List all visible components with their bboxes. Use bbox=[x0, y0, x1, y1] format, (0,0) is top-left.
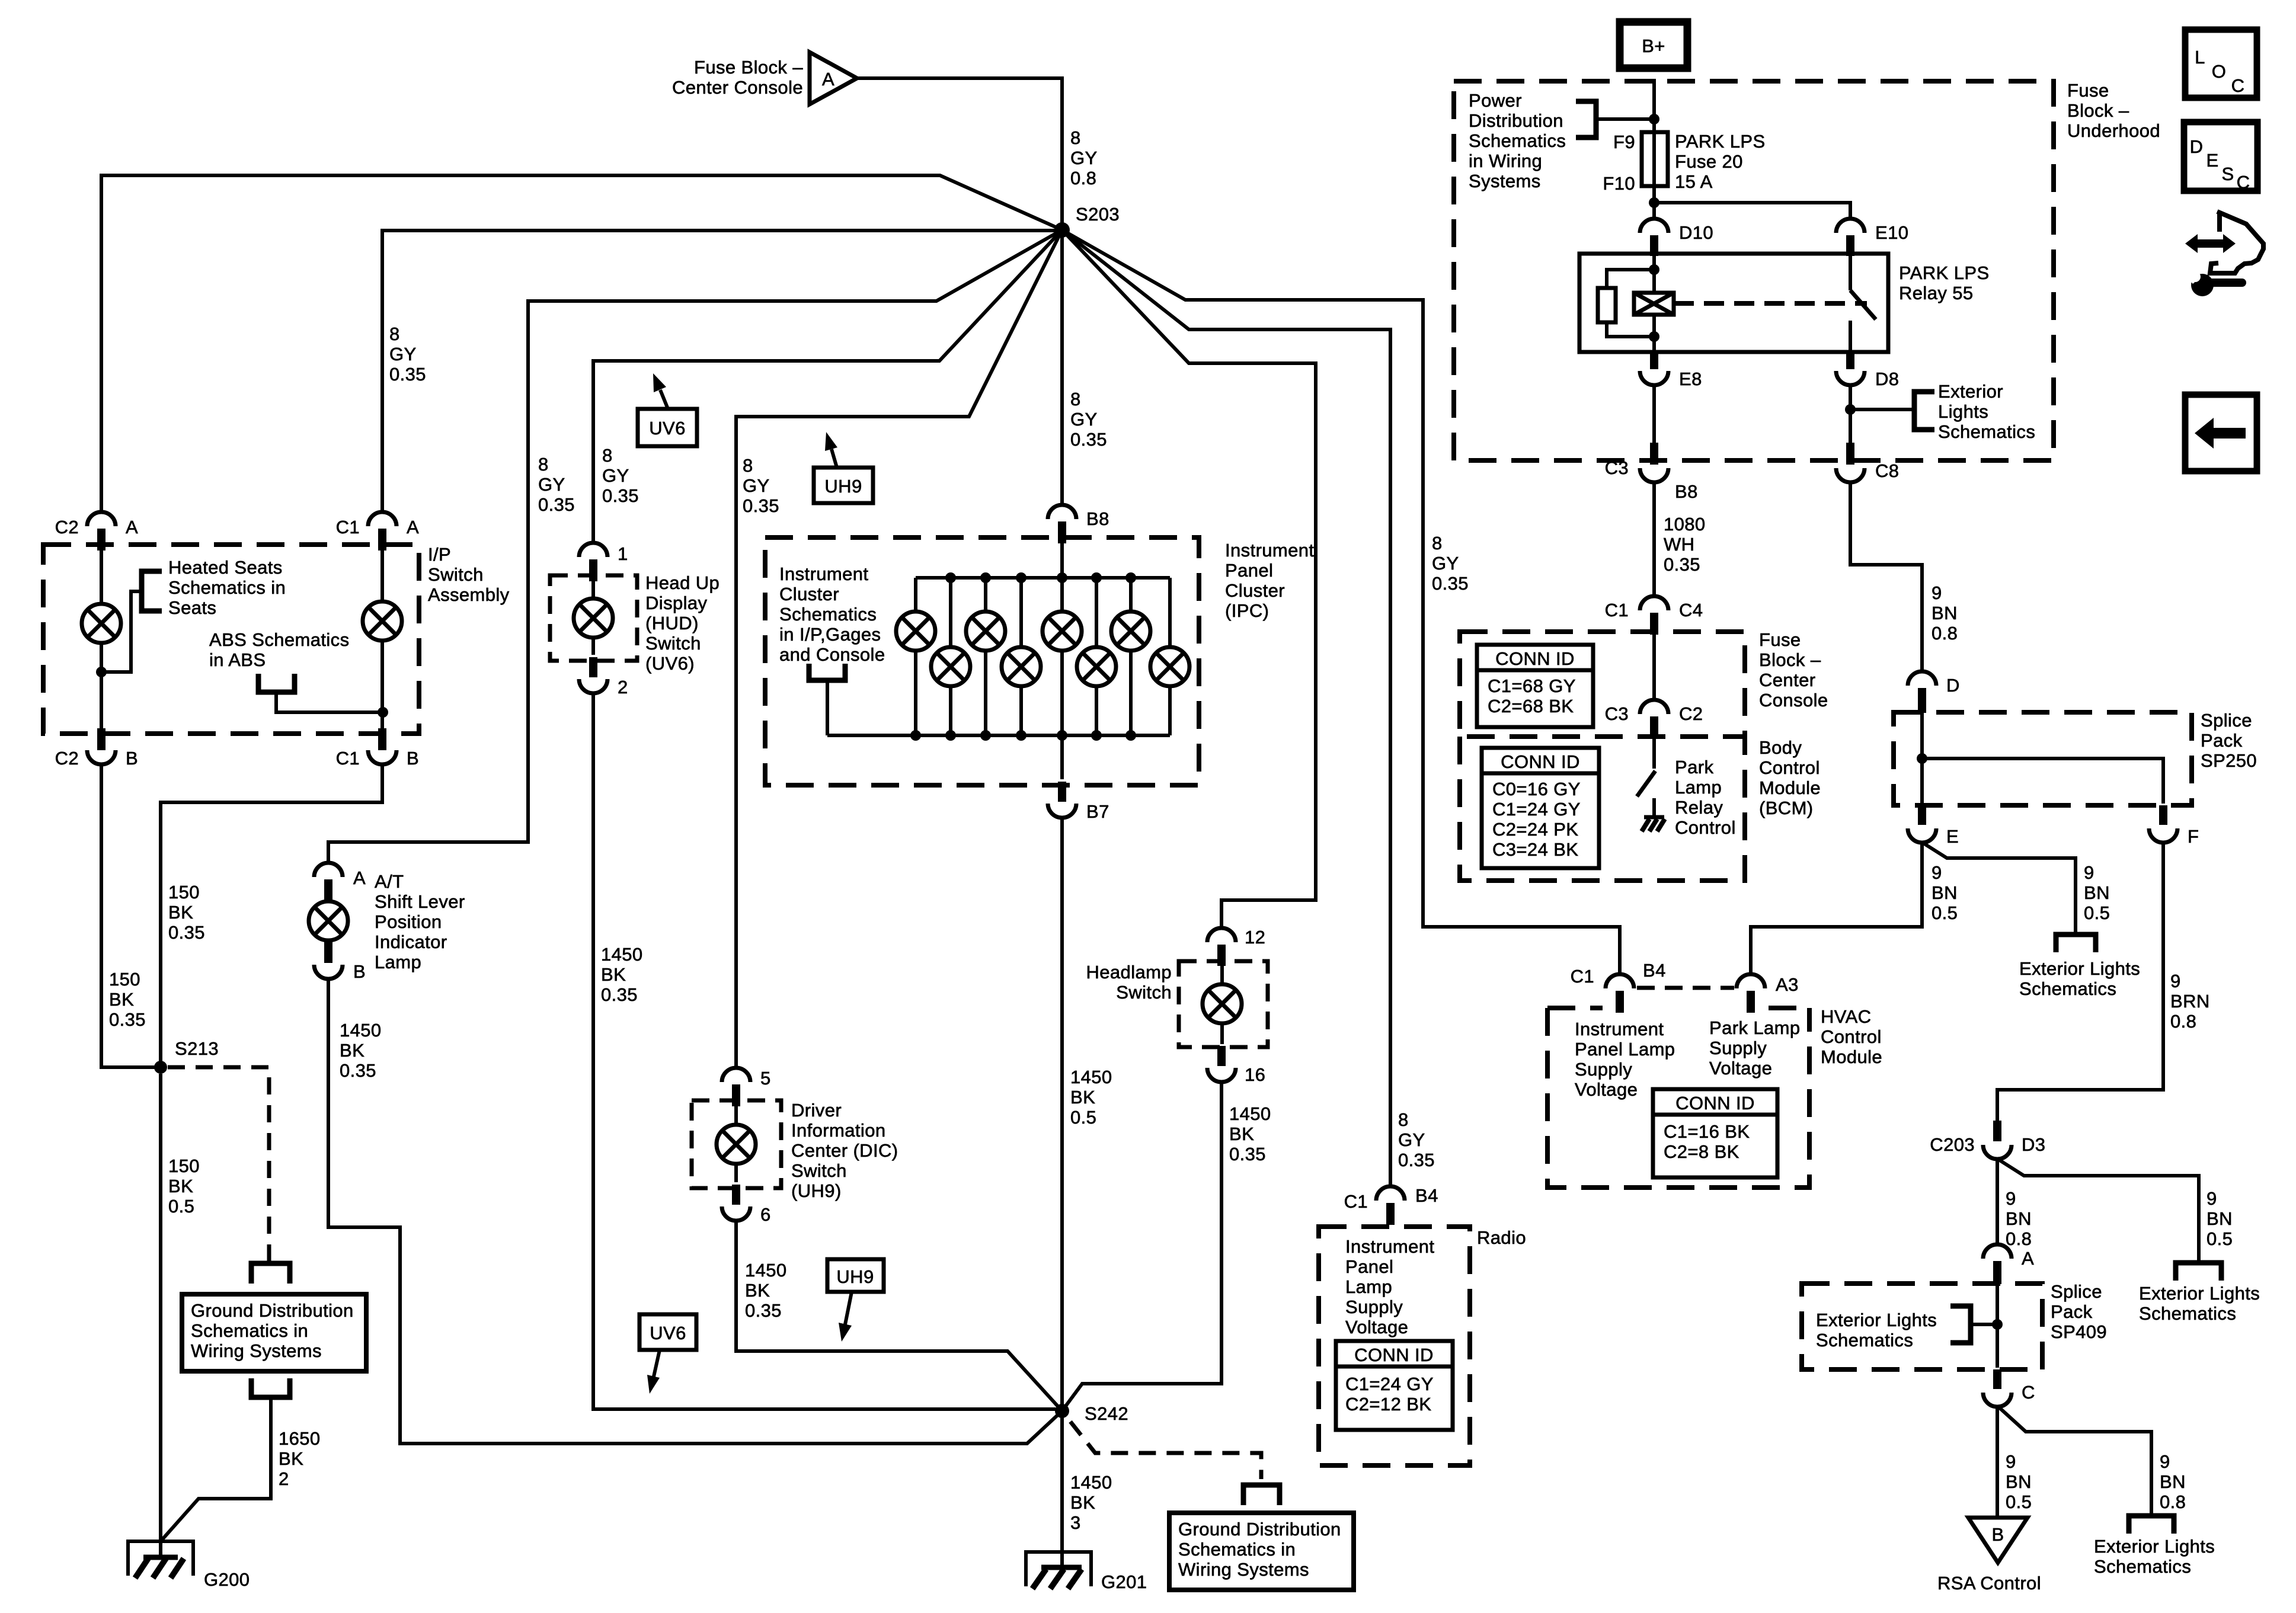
svg-text:C1: C1 bbox=[336, 517, 360, 537]
junction dot on C2 lamp wire bbox=[96, 667, 107, 677]
svg-text:8: 8 bbox=[1398, 1109, 1409, 1130]
wire D8 to underhood connector C8 bbox=[1849, 385, 1852, 444]
wire lamp to I/P box bottom (C1 side) bbox=[380, 639, 384, 731]
junction dot on C1 lamp wire bbox=[378, 707, 388, 718]
junction dot power distribution tap bbox=[1649, 114, 1659, 124]
IPC bottom rail junction dots bbox=[910, 730, 921, 741]
svg-text:E10: E10 bbox=[1875, 222, 1908, 243]
svg-text:BK: BK bbox=[168, 902, 193, 923]
svg-text:Fuse: Fuse bbox=[2067, 80, 2109, 101]
IPC cluster lamp 7 bbox=[1111, 612, 1150, 651]
wire S242 to ground G201 (1450 BK 3) bbox=[1060, 1417, 1064, 1567]
svg-text:Wiring Systems: Wiring Systems bbox=[1178, 1559, 1309, 1580]
svg-text:ABS Schematics: ABS Schematics bbox=[209, 629, 349, 650]
svg-text:A: A bbox=[407, 517, 419, 537]
wire E8 to underhood connector C3-B8 bbox=[1652, 385, 1656, 444]
svg-text:1: 1 bbox=[618, 543, 628, 564]
svg-text:(BCM): (BCM) bbox=[1759, 798, 1814, 818]
IPC lamp column 1 bbox=[914, 578, 917, 735]
svg-text:9: 9 bbox=[2006, 1188, 2016, 1209]
relay suppression resistor branch top bbox=[1607, 270, 1654, 288]
svg-text:BK: BK bbox=[340, 1040, 364, 1061]
svg-text:D: D bbox=[1946, 675, 1960, 696]
svg-text:1450: 1450 bbox=[1070, 1472, 1112, 1493]
wire A to C inside SP409 bbox=[1996, 1284, 1999, 1368]
svg-text:150: 150 bbox=[109, 969, 140, 990]
bracket below Ground Distribution box (left) bbox=[251, 1378, 290, 1397]
svg-text:Block –: Block – bbox=[2067, 100, 2129, 121]
svg-text:8: 8 bbox=[538, 454, 549, 475]
svg-text:Park: Park bbox=[1675, 757, 1713, 777]
svg-text:B8: B8 bbox=[1675, 481, 1698, 502]
UH9 option label box (bottom) bbox=[827, 1259, 884, 1292]
svg-text:C2: C2 bbox=[1679, 703, 1703, 724]
svg-text:Panel Lamp: Panel Lamp bbox=[1575, 1039, 1675, 1060]
wire HUD pin 2 to splice S242 (1450 BK 0.35) bbox=[593, 693, 1056, 1409]
wire inside HUD switch bbox=[591, 581, 595, 655]
svg-text:UV6: UV6 bbox=[650, 1323, 686, 1343]
svg-text:Schematics: Schematics bbox=[2139, 1303, 2236, 1324]
Splice Pack SP409 dashed box bbox=[1802, 1284, 2042, 1369]
wire from S203 to connector C2-A of I/P switch assembly (8 GY 0.35) bbox=[101, 175, 1062, 513]
wire IPC bottom rail to connector B7 bbox=[1060, 735, 1064, 779]
svg-text:0.35: 0.35 bbox=[1229, 1144, 1266, 1164]
ground G200 symbol bbox=[128, 1541, 193, 1576]
CONN ID table of HVAC bbox=[1653, 1089, 1777, 1177]
UV6 arrow (bottom) bbox=[654, 1350, 660, 1377]
svg-text:S213: S213 bbox=[175, 1038, 219, 1059]
svg-text:3: 3 bbox=[1070, 1512, 1081, 1533]
svg-text:Module: Module bbox=[1759, 777, 1821, 798]
svg-text:0.8: 0.8 bbox=[2160, 1492, 2186, 1512]
UH9 arrow (bottom) bbox=[845, 1292, 852, 1324]
svg-text:8: 8 bbox=[602, 445, 613, 466]
svg-text:0.8: 0.8 bbox=[1070, 168, 1096, 188]
svg-text:0.35: 0.35 bbox=[601, 984, 638, 1005]
PARK LPS Relay 55 box bbox=[1579, 254, 1888, 352]
UV6 arrow (top) bbox=[660, 390, 668, 409]
connector A of splice pack SP409 bbox=[1983, 1244, 2012, 1259]
wire C8 to splice pack SP250 connector D (9 BN 0.8) bbox=[1850, 482, 1922, 671]
svg-text:0.35: 0.35 bbox=[1432, 573, 1469, 594]
svg-text:C1=24 GY: C1=24 GY bbox=[1492, 799, 1581, 820]
I/P switch assembly lamp (C1 side) bbox=[363, 601, 402, 641]
wire A/T lamp pin B to splice S242 (1450 BK 0.35) bbox=[328, 979, 1062, 1444]
Body Control Module dashed box bbox=[1460, 737, 1745, 881]
junction dot below fuse (E10 branch) bbox=[1649, 197, 1659, 208]
connector pin 6 of DIC switch bbox=[722, 1206, 750, 1221]
svg-text:1450: 1450 bbox=[1229, 1103, 1271, 1124]
svg-text:RSA Control: RSA Control bbox=[1937, 1573, 2041, 1593]
Fuse Block - Underhood dashed box bbox=[1454, 81, 2054, 460]
svg-text:Shift Lever: Shift Lever bbox=[375, 891, 465, 912]
IPC lamp column 2 bbox=[949, 578, 952, 735]
svg-text:BN: BN bbox=[2006, 1208, 2032, 1229]
svg-text:F10: F10 bbox=[1603, 173, 1635, 194]
IPC lamp column 7 bbox=[1129, 578, 1133, 735]
svg-text:9: 9 bbox=[2006, 1451, 2016, 1472]
svg-text:(UH9): (UH9) bbox=[791, 1180, 842, 1201]
svg-text:16: 16 bbox=[1245, 1064, 1265, 1085]
svg-text:C1: C1 bbox=[1571, 966, 1594, 987]
svg-text:0.5: 0.5 bbox=[2006, 1492, 2032, 1512]
svg-text:1650: 1650 bbox=[279, 1428, 321, 1449]
svg-text:B4: B4 bbox=[1415, 1185, 1438, 1206]
Instrument Panel Cluster dashed box bbox=[765, 537, 1199, 785]
svg-text:(IPC): (IPC) bbox=[1225, 600, 1269, 621]
svg-text:Supply: Supply bbox=[1709, 1038, 1767, 1058]
svg-text:1450: 1450 bbox=[340, 1020, 382, 1041]
svg-text:Supply: Supply bbox=[1575, 1059, 1632, 1080]
off-page triangle connector A (Fuse Block - Center Console) bbox=[810, 52, 857, 104]
svg-text:Information: Information bbox=[791, 1120, 885, 1141]
off-page triangle connector B (RSA Control) bbox=[1968, 1518, 2028, 1563]
wire Ground Distribution reference to G200 (1650 BK 2) bbox=[161, 1397, 271, 1541]
connector C1-B4 of radio bbox=[1376, 1186, 1405, 1201]
svg-text:BN: BN bbox=[1932, 603, 1958, 623]
svg-text:PARK LPS: PARK LPS bbox=[1899, 263, 1990, 283]
svg-text:Schematics: Schematics bbox=[1469, 130, 1566, 151]
heated seats illumination lamp (in I/P switch assembly) bbox=[82, 604, 121, 643]
svg-text:0.35: 0.35 bbox=[389, 364, 426, 385]
svg-text:B7: B7 bbox=[1086, 801, 1109, 822]
svg-text:Ground Distribution: Ground Distribution bbox=[1178, 1519, 1341, 1540]
svg-text:BN: BN bbox=[2084, 882, 2110, 903]
connector B8 of instrument panel cluster bbox=[1048, 505, 1076, 519]
connector A3 of HVAC control module bbox=[1737, 974, 1765, 988]
Ground Distribution Schematics box (right) bbox=[1169, 1513, 1354, 1590]
svg-text:Control: Control bbox=[1821, 1026, 1882, 1047]
svg-text:150: 150 bbox=[168, 882, 200, 902]
wire S203 to headlamp switch pin 12 (8 GY 0.35) bbox=[1062, 230, 1316, 928]
svg-text:1080: 1080 bbox=[1664, 514, 1706, 535]
wire triangle A to S203 (8 GY 0.8) bbox=[857, 78, 1062, 223]
wire F to connector C203-D3 (9 BRN 0.8) bbox=[1997, 843, 2163, 1122]
Splice Pack SP250 dashed box bbox=[1894, 712, 2192, 805]
wire C1-B down/left to splice S213 (150 BK 0.35) bbox=[161, 764, 382, 1061]
svg-text:B: B bbox=[126, 748, 138, 769]
svg-text:BRN: BRN bbox=[2170, 991, 2210, 1012]
DIC switch illumination lamp bbox=[717, 1125, 756, 1164]
svg-text:B: B bbox=[353, 961, 366, 982]
IPC lamp column 4 bbox=[1019, 578, 1023, 735]
wire from S203 to DIC switch pin 5 (8 GY 0.35) bbox=[736, 230, 1062, 1068]
svg-text:C1: C1 bbox=[1344, 1191, 1368, 1212]
svg-text:Lamp: Lamp bbox=[1345, 1276, 1392, 1297]
CONN ID table of BCM bbox=[1482, 748, 1599, 868]
IPC lamp column 3 bbox=[984, 578, 987, 735]
svg-text:150: 150 bbox=[168, 1156, 200, 1176]
svg-text:9: 9 bbox=[2207, 1188, 2217, 1209]
relay actuation dashed link bbox=[1674, 301, 1867, 306]
svg-text:Head Up: Head Up bbox=[645, 572, 720, 593]
svg-text:GY: GY bbox=[1070, 148, 1098, 168]
svg-text:8: 8 bbox=[743, 455, 753, 476]
svg-text:0.35: 0.35 bbox=[1664, 554, 1700, 575]
branch wire to ABS Schematics bracket bbox=[276, 692, 383, 712]
bracket Exterior Lights Schematics (bottom) bbox=[2129, 1516, 2174, 1534]
svg-text:BN: BN bbox=[2006, 1471, 2032, 1492]
svg-text:0.35: 0.35 bbox=[168, 922, 205, 943]
svg-text:Heated Seats: Heated Seats bbox=[168, 557, 283, 578]
svg-text:A: A bbox=[353, 868, 366, 888]
IPC top rail junction dots bbox=[945, 572, 956, 583]
svg-text:BK: BK bbox=[745, 1280, 770, 1301]
svg-text:E: E bbox=[2206, 150, 2218, 171]
connector E of splice pack SP250 bbox=[1918, 805, 1926, 825]
svg-text:UH9: UH9 bbox=[836, 1266, 874, 1287]
IPC bottom bus rail bbox=[827, 734, 1170, 737]
wire E to HVAC connector A3 (9 BN 0.5) bbox=[1751, 843, 1922, 975]
wire tap to Power Distribution bracket bbox=[1596, 117, 1654, 121]
svg-text:C8: C8 bbox=[1875, 460, 1899, 481]
IPC cluster lamp 8 bbox=[1150, 647, 1189, 686]
bracket Exterior Lights Schematics (right of SP409) bbox=[2176, 1263, 2221, 1281]
svg-text:Module: Module bbox=[1821, 1046, 1882, 1067]
svg-text:C2: C2 bbox=[55, 748, 79, 769]
IPC cluster lamp 4 bbox=[1002, 647, 1041, 686]
IPC cluster lamp 3 bbox=[966, 612, 1005, 651]
connector D8 of PARK LPS relay bbox=[1836, 371, 1865, 385]
junction dot in SP250 bbox=[1917, 753, 1927, 764]
svg-text:C3=24 BK: C3=24 BK bbox=[1492, 839, 1578, 860]
connector C1-A (I/P switch assembly pin A) bbox=[368, 512, 396, 526]
branch wire D3 to Exterior Lights reference (right) bbox=[2000, 1160, 2199, 1263]
bracket above Ground Distribution box (left) bbox=[251, 1263, 290, 1284]
svg-text:S242: S242 bbox=[1085, 1403, 1128, 1424]
svg-text:C1: C1 bbox=[336, 748, 360, 769]
svg-text:(HUD): (HUD) bbox=[645, 613, 699, 633]
wire inside DIC switch bbox=[734, 1106, 738, 1182]
svg-text:WH: WH bbox=[1664, 534, 1694, 555]
Headlamp Switch dashed box bbox=[1179, 961, 1268, 1047]
bracket to ABS Schematics bbox=[258, 674, 295, 692]
wire to Exterior Lights bracket (D8) bbox=[1850, 408, 1914, 411]
svg-text:SP250: SP250 bbox=[2201, 750, 2257, 771]
wire B+ to connector D10 bbox=[1652, 79, 1656, 219]
svg-text:Schematics: Schematics bbox=[2094, 1556, 2191, 1577]
svg-text:Voltage: Voltage bbox=[1709, 1058, 1772, 1078]
svg-text:BK: BK bbox=[279, 1448, 303, 1469]
svg-text:Indicator: Indicator bbox=[375, 932, 447, 952]
wire S203 to radio connector C1-B4 (8 GY 0.35) bbox=[1062, 230, 1390, 1186]
junction dot in SP409 bbox=[1992, 1319, 2003, 1330]
svg-text:0.35: 0.35 bbox=[1398, 1150, 1435, 1170]
svg-text:0.5: 0.5 bbox=[1070, 1107, 1096, 1128]
connector D of splice pack SP250 bbox=[1908, 671, 1936, 686]
svg-text:Driver: Driver bbox=[791, 1100, 842, 1121]
connector C2-A (I/P switch assembly pin A) bbox=[87, 512, 116, 526]
svg-text:C3: C3 bbox=[1605, 457, 1629, 478]
wire headlamp pin 16 to splice S242 (1450 BK 0.35) bbox=[1062, 1082, 1221, 1411]
svg-text:0.35: 0.35 bbox=[743, 495, 779, 516]
branch wire C to Exterior Lights reference (bottom) bbox=[2000, 1408, 2151, 1516]
relay suppression resistor bbox=[1598, 288, 1616, 322]
svg-text:0.8: 0.8 bbox=[2170, 1011, 2196, 1032]
svg-text:Park Lamp: Park Lamp bbox=[1709, 1017, 1801, 1038]
UV6 option label box (bottom) bbox=[639, 1314, 696, 1350]
svg-text:F: F bbox=[2188, 826, 2199, 847]
UV6 option label box (top) bbox=[638, 409, 697, 446]
svg-text:CONN ID: CONN ID bbox=[1675, 1093, 1755, 1113]
headlamp switch illumination lamp bbox=[1203, 984, 1242, 1023]
svg-text:Voltage: Voltage bbox=[1345, 1317, 1408, 1337]
svg-text:1450: 1450 bbox=[745, 1260, 787, 1281]
bracket to Exterior Lights Schematics (underhood) bbox=[1914, 392, 1934, 430]
IPC lamp column 5 bbox=[1060, 578, 1064, 735]
svg-text:C2: C2 bbox=[55, 517, 79, 537]
svg-text:Assembly: Assembly bbox=[428, 584, 510, 605]
svg-text:I/P: I/P bbox=[428, 544, 451, 565]
wire B8 into IPC top rail bbox=[1060, 543, 1064, 578]
svg-text:Center (DIC): Center (DIC) bbox=[791, 1140, 898, 1161]
relay switch fixed contact wire bbox=[1849, 256, 1852, 290]
wire DIC pin 6 to splice S242 (1450 BK 0.35) bbox=[736, 1221, 1062, 1411]
wire D to E inside SP250 bbox=[1920, 713, 1924, 804]
svg-text:9: 9 bbox=[1932, 862, 1942, 883]
svg-text:G200: G200 bbox=[204, 1569, 250, 1590]
BCM park lamp relay control switch wire bbox=[1652, 739, 1656, 769]
svg-text:Lamp: Lamp bbox=[1675, 777, 1722, 798]
svg-text:A/T: A/T bbox=[375, 871, 404, 892]
svg-text:(UV6): (UV6) bbox=[645, 653, 695, 674]
connector A of A/T shift lever position indicator lamp bbox=[314, 863, 343, 877]
bracket to Exterior Lights Schematics (in SP409) bbox=[1950, 1306, 1971, 1343]
svg-text:2: 2 bbox=[279, 1468, 289, 1489]
svg-text:D10: D10 bbox=[1679, 222, 1713, 243]
svg-text:Exterior Lights: Exterior Lights bbox=[1816, 1310, 1937, 1330]
svg-text:0.35: 0.35 bbox=[340, 1060, 376, 1081]
svg-text:GY: GY bbox=[602, 465, 629, 486]
svg-text:in Wiring: in Wiring bbox=[1469, 151, 1542, 171]
Head Up Display switch dashed box bbox=[550, 575, 637, 661]
svg-text:GY: GY bbox=[1070, 409, 1098, 430]
svg-text:Position: Position bbox=[375, 911, 442, 932]
svg-text:C2=12 BK: C2=12 BK bbox=[1345, 1394, 1431, 1414]
svg-text:8: 8 bbox=[1432, 533, 1443, 553]
svg-text:B: B bbox=[1991, 1524, 2004, 1545]
svg-text:CONN ID: CONN ID bbox=[1354, 1345, 1434, 1365]
svg-text:C0=16 GY: C0=16 GY bbox=[1492, 779, 1581, 799]
svg-text:0.35: 0.35 bbox=[602, 485, 639, 506]
svg-text:5: 5 bbox=[760, 1068, 771, 1089]
A/T shift lever position indicator lamp bbox=[309, 901, 348, 940]
svg-text:6: 6 bbox=[760, 1204, 771, 1225]
wire lamp to I/P box bottom (C2 side) bbox=[100, 642, 103, 731]
svg-text:B8: B8 bbox=[1086, 508, 1109, 529]
svg-text:9: 9 bbox=[2170, 971, 2181, 991]
svg-text:BK: BK bbox=[601, 964, 626, 985]
svg-text:Exterior Lights: Exterior Lights bbox=[2139, 1283, 2260, 1304]
connector C of splice pack SP409 bbox=[1993, 1369, 2001, 1389]
svg-text:PARK LPS: PARK LPS bbox=[1675, 131, 1766, 152]
connector C1-C4 of fuse block center console bbox=[1640, 596, 1668, 610]
connector C1-B4 of HVAC control module bbox=[1606, 974, 1634, 988]
svg-text:Schematics in: Schematics in bbox=[168, 577, 286, 598]
svg-text:C4: C4 bbox=[1679, 600, 1703, 620]
ground G201 symbol bbox=[1026, 1552, 1091, 1586]
svg-text:C: C bbox=[2231, 75, 2245, 96]
svg-text:9: 9 bbox=[2084, 862, 2094, 883]
LOC icon box bbox=[2185, 30, 2257, 98]
svg-text:Switch: Switch bbox=[428, 564, 484, 585]
svg-text:Headlamp: Headlamp bbox=[1086, 962, 1172, 982]
wire S203 to HVAC connector C1-B4 (8 GY 0.35) bbox=[1062, 230, 1620, 975]
wire S203 to IPC connector B8 (8 GY 0.35) bbox=[1060, 236, 1064, 505]
HUD switch illumination lamp bbox=[574, 599, 613, 638]
HVAC Control Module dashed box bbox=[1547, 1006, 1603, 1010]
svg-text:Radio: Radio bbox=[1477, 1227, 1526, 1248]
I/P Switch Assembly dashed box bbox=[43, 545, 419, 734]
svg-text:HVAC: HVAC bbox=[1821, 1006, 1871, 1027]
svg-text:0.5: 0.5 bbox=[1932, 902, 1958, 923]
wire C1-C4 to BCM connector C3-C2 bbox=[1652, 635, 1656, 700]
svg-text:Pack: Pack bbox=[2051, 1301, 2093, 1322]
svg-text:0.8: 0.8 bbox=[2006, 1228, 2032, 1249]
connector B7 of instrument panel cluster bbox=[1048, 804, 1076, 818]
Fuse Block Center Console dashed box bbox=[1460, 632, 1745, 737]
B+ battery feed box bbox=[1620, 22, 1687, 68]
svg-text:BN: BN bbox=[2207, 1208, 2233, 1229]
svg-text:Console: Console bbox=[1759, 690, 1828, 711]
svg-text:8: 8 bbox=[1070, 127, 1081, 148]
svg-text:Schematics in: Schematics in bbox=[191, 1320, 308, 1341]
connector E10 of PARK LPS relay bbox=[1836, 219, 1865, 233]
wire from S203 to A/T shift lever lamp pin A (8 GY 0.35) bbox=[328, 230, 1062, 863]
relay switch output wire bbox=[1849, 321, 1852, 352]
IPC lamp column 6 bbox=[1095, 578, 1098, 735]
svg-text:BK: BK bbox=[168, 1176, 193, 1196]
svg-text:C: C bbox=[2237, 172, 2250, 193]
BCM park lamp relay control switch blade bbox=[1637, 771, 1655, 796]
connector pin 5 of DIC switch bbox=[722, 1068, 750, 1082]
svg-text:GY: GY bbox=[538, 474, 565, 495]
svg-text:Schematics: Schematics bbox=[1938, 421, 2035, 442]
svg-text:Cluster: Cluster bbox=[779, 584, 839, 604]
connector C8 at underhood exit bbox=[1846, 443, 1854, 465]
svg-text:Schematics: Schematics bbox=[779, 604, 877, 625]
svg-text:BN: BN bbox=[2160, 1471, 2186, 1492]
svg-text:8: 8 bbox=[389, 324, 400, 344]
DESC icon box bbox=[2184, 122, 2257, 191]
dashed wire S242 to Ground Distribution reference (right) bbox=[1070, 1422, 1261, 1479]
svg-text:GY: GY bbox=[743, 475, 770, 496]
wire from S203 to HUD switch pin 1 (8 GY 0.35) bbox=[593, 230, 1062, 543]
svg-text:Schematics: Schematics bbox=[2019, 978, 2116, 999]
svg-text:B4: B4 bbox=[1643, 960, 1666, 981]
wire C3-B8 to fuse block center console C1-C4 (1080 WH 0.35) bbox=[1652, 482, 1656, 596]
svg-text:BK: BK bbox=[109, 989, 134, 1010]
svg-text:9: 9 bbox=[2160, 1451, 2170, 1472]
CONN ID table of fuse block center console bbox=[1477, 645, 1593, 727]
svg-text:C2=68 BK: C2=68 BK bbox=[1488, 696, 1574, 716]
wire C to RSA control triangle B (9 BN 0.5) bbox=[1996, 1407, 1999, 1518]
connector pin 2 of HUD switch bbox=[579, 679, 607, 693]
svg-text:Fuse 20: Fuse 20 bbox=[1675, 151, 1743, 172]
relay switch blade bbox=[1850, 290, 1876, 319]
IPC cluster lamp 5 bbox=[1043, 612, 1082, 651]
UH9 arrow (top) bbox=[832, 449, 837, 468]
back arrow icon box bbox=[2185, 395, 2257, 471]
connector C203-D3 bbox=[1993, 1121, 2001, 1141]
branch wire E to Exterior Lights reference bbox=[1924, 844, 2076, 934]
svg-text:BK: BK bbox=[1229, 1124, 1254, 1144]
svg-text:Body: Body bbox=[1759, 737, 1802, 758]
svg-text:Display: Display bbox=[645, 593, 708, 613]
splice S203 bbox=[1054, 222, 1070, 238]
svg-text:Panel: Panel bbox=[1345, 1256, 1393, 1277]
svg-text:Systems: Systems bbox=[1469, 171, 1541, 191]
